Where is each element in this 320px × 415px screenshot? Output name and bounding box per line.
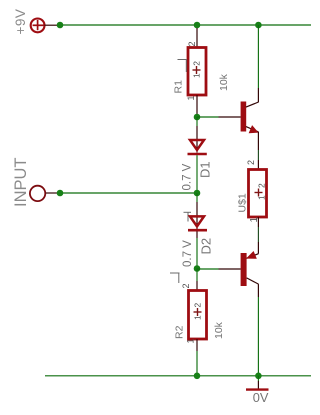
node junction dot input xyxy=(57,190,64,197)
svg-text:1: 1 xyxy=(186,338,196,343)
input port circle xyxy=(30,186,45,201)
svg-text:INPUT: INPUT xyxy=(12,158,30,208)
resistor U$1 xyxy=(249,170,267,218)
wire node to D1 xyxy=(196,117,198,126)
wire bottom rail 0V xyxy=(45,375,311,377)
svg-text:U$1: U$1 xyxy=(237,193,249,212)
resistor R2 xyxy=(189,291,207,340)
wire D1 to input node xyxy=(196,155,198,193)
svg-text:1: 1 xyxy=(186,95,196,100)
wire input xyxy=(46,192,57,194)
wire Q2 collector to rail xyxy=(257,284,259,297)
transistor Q2 PNP xyxy=(219,252,259,286)
svg-text:2: 2 xyxy=(181,283,191,288)
node junction dot bottom left xyxy=(194,373,201,380)
node junction dot bottom right xyxy=(255,373,262,380)
resistor R1 xyxy=(188,48,206,96)
wire D2 to lower base node xyxy=(196,231,198,238)
svg-text:1: 1 xyxy=(257,195,267,200)
transistor Q1 NPN xyxy=(219,102,259,133)
svg-text:+9V: +9V xyxy=(13,9,28,35)
svg-text:1: 1 xyxy=(192,73,202,78)
node junction dot top-left xyxy=(57,22,64,29)
node junction dot top collector column xyxy=(255,22,262,29)
svg-text:10k: 10k xyxy=(213,321,225,339)
svg-text:0.7 V: 0.7 V xyxy=(182,240,194,267)
wire R2 bottom to rail xyxy=(196,339,198,351)
wire Q1 emitter to U$1 xyxy=(257,132,259,150)
wire top rail +9V xyxy=(57,24,311,26)
svg-text:D2: D2 xyxy=(199,238,214,255)
svg-text:R2: R2 xyxy=(174,325,186,339)
diode D2 xyxy=(188,216,207,230)
pin number 1 of D2 xyxy=(184,212,192,221)
svg-text:2: 2 xyxy=(193,303,203,308)
svg-text:2: 2 xyxy=(246,160,256,165)
diode D1 xyxy=(188,140,207,154)
wire U$1 to Q2 emitter xyxy=(257,217,259,227)
svg-text:10k: 10k xyxy=(218,73,230,91)
wire R1 top xyxy=(196,28,198,48)
svg-text:2: 2 xyxy=(192,61,202,66)
svg-text:D1: D1 xyxy=(198,161,213,178)
part origin mark R2 xyxy=(170,273,180,283)
supply +9V symbol xyxy=(31,19,58,33)
wire R1 bottom to node xyxy=(196,95,198,117)
wire base Q1 xyxy=(197,116,219,118)
wire base Q2 xyxy=(197,268,219,270)
svg-text:R1: R1 xyxy=(173,80,185,94)
wire node to D2 xyxy=(196,193,198,202)
ground 0V symbol xyxy=(246,376,269,390)
node junction dot diode chain xyxy=(194,190,201,197)
svg-text:1: 1 xyxy=(193,315,203,320)
wire collector column top xyxy=(257,25,259,88)
part origin mark R1 xyxy=(178,60,188,73)
node junction dot lower base xyxy=(194,265,201,272)
svg-text:2: 2 xyxy=(257,183,267,188)
svg-text:0V: 0V xyxy=(253,390,269,405)
svg-text:2: 2 xyxy=(187,41,197,46)
svg-text:0.7 V: 0.7 V xyxy=(182,163,194,190)
node junction dot top R1 column xyxy=(194,22,201,29)
wire node to R2 xyxy=(196,269,198,282)
node junction dot upper base xyxy=(194,114,201,121)
